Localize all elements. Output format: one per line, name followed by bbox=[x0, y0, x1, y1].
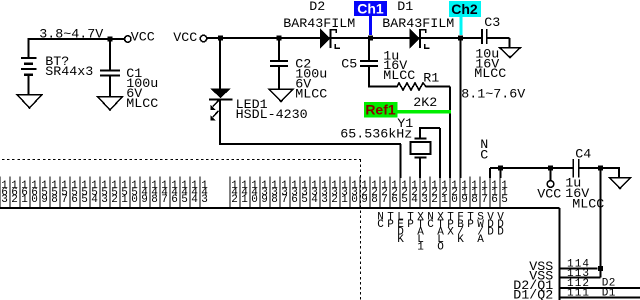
svg-text:D1: D1 bbox=[397, 0, 413, 15]
svg-text:1: 1 bbox=[441, 194, 448, 206]
svg-text:C5: C5 bbox=[341, 58, 357, 73]
svg-text:P: P bbox=[387, 219, 394, 231]
svg-text:VCC: VCC bbox=[131, 31, 155, 46]
svg-text:2: 2 bbox=[111, 194, 118, 206]
svg-text:C: C bbox=[480, 149, 488, 164]
svg-text:Ch1: Ch1 bbox=[357, 1, 384, 17]
svg-text:8: 8 bbox=[371, 194, 378, 206]
svg-text:4: 4 bbox=[311, 194, 318, 206]
svg-text:5: 5 bbox=[401, 194, 408, 206]
svg-text:6: 6 bbox=[71, 194, 78, 206]
svg-text:SR44x3: SR44x3 bbox=[45, 65, 93, 80]
svg-text:0: 0 bbox=[451, 194, 458, 206]
svg-text:8: 8 bbox=[271, 194, 278, 206]
svg-text:7: 7 bbox=[61, 194, 68, 206]
svg-text:1: 1 bbox=[341, 194, 348, 206]
svg-text:BAR43FILM: BAR43FILM bbox=[382, 17, 454, 32]
svg-text:3: 3 bbox=[321, 194, 328, 206]
svg-text:D1/Q2: D1/Q2 bbox=[513, 289, 553, 300]
svg-text:6: 6 bbox=[171, 194, 178, 206]
svg-text:A: A bbox=[477, 234, 484, 246]
svg-text:0: 0 bbox=[131, 194, 138, 206]
svg-text:2: 2 bbox=[11, 194, 18, 206]
svg-text:R1: R1 bbox=[423, 72, 439, 87]
svg-text:2: 2 bbox=[331, 194, 338, 206]
svg-text:5: 5 bbox=[81, 194, 88, 206]
svg-text:MLCC: MLCC bbox=[383, 69, 415, 84]
svg-text:2: 2 bbox=[431, 194, 438, 206]
svg-text:2: 2 bbox=[231, 194, 238, 206]
svg-text:3.8~4.7V: 3.8~4.7V bbox=[39, 28, 103, 43]
svg-text:5: 5 bbox=[301, 194, 308, 206]
svg-text:O: O bbox=[437, 242, 444, 254]
svg-text:6: 6 bbox=[491, 194, 498, 206]
svg-text:4: 4 bbox=[91, 194, 98, 206]
svg-text:4: 4 bbox=[411, 194, 418, 206]
svg-text:K: K bbox=[397, 234, 404, 246]
svg-text:9: 9 bbox=[261, 194, 268, 206]
svg-text:3: 3 bbox=[421, 194, 428, 206]
svg-text:6: 6 bbox=[391, 194, 398, 206]
svg-text:C3: C3 bbox=[484, 16, 500, 31]
svg-text:3: 3 bbox=[201, 194, 208, 206]
svg-text:5: 5 bbox=[181, 194, 188, 206]
svg-text:8: 8 bbox=[471, 194, 478, 206]
svg-text:C4: C4 bbox=[575, 148, 591, 163]
svg-text:VCC: VCC bbox=[173, 31, 197, 46]
svg-text:9: 9 bbox=[361, 194, 368, 206]
svg-text:D2: D2 bbox=[309, 0, 325, 15]
svg-text:5: 5 bbox=[501, 194, 508, 206]
svg-text:1: 1 bbox=[417, 242, 424, 254]
svg-text:4: 4 bbox=[191, 194, 198, 206]
svg-text:C: C bbox=[427, 219, 434, 231]
svg-text:3: 3 bbox=[1, 194, 8, 206]
svg-text:0: 0 bbox=[251, 194, 258, 206]
svg-text:111: 111 bbox=[567, 288, 589, 300]
svg-text:D: D bbox=[497, 227, 504, 239]
svg-text:P: P bbox=[467, 219, 474, 231]
svg-text:8: 8 bbox=[51, 194, 58, 206]
svg-text:7: 7 bbox=[481, 194, 488, 206]
svg-text:8.1~7.6V: 8.1~7.6V bbox=[461, 88, 525, 103]
svg-text:0: 0 bbox=[31, 194, 38, 206]
svg-text:Ch2: Ch2 bbox=[451, 1, 478, 17]
svg-text:0: 0 bbox=[351, 194, 358, 206]
svg-text:MLCC: MLCC bbox=[126, 97, 158, 112]
svg-text:1: 1 bbox=[21, 194, 28, 206]
svg-text:BAR43FILM: BAR43FILM bbox=[283, 17, 355, 32]
svg-text:MLCC: MLCC bbox=[474, 67, 506, 82]
svg-text:K: K bbox=[457, 234, 464, 246]
svg-text:VCC: VCC bbox=[537, 188, 561, 203]
svg-text:65.536kHz: 65.536kHz bbox=[340, 128, 412, 143]
svg-text:2K2: 2K2 bbox=[413, 96, 437, 111]
svg-text:9: 9 bbox=[141, 194, 148, 206]
svg-text:9: 9 bbox=[461, 194, 468, 206]
svg-text:MLCC: MLCC bbox=[295, 88, 327, 103]
svg-text:C: C bbox=[377, 219, 384, 231]
svg-text:Ref1: Ref1 bbox=[365, 102, 396, 118]
svg-text:3: 3 bbox=[101, 194, 108, 206]
svg-text:1: 1 bbox=[241, 194, 248, 206]
svg-text:P: P bbox=[407, 219, 414, 231]
svg-text:X: X bbox=[447, 227, 454, 239]
svg-text:HSDL-4230: HSDL-4230 bbox=[236, 108, 308, 123]
svg-text:7: 7 bbox=[281, 194, 288, 206]
svg-text:9: 9 bbox=[41, 194, 48, 206]
svg-text:7: 7 bbox=[161, 194, 168, 206]
svg-text:6: 6 bbox=[291, 194, 298, 206]
svg-text:D1: D1 bbox=[602, 288, 616, 300]
svg-text:D: D bbox=[487, 227, 494, 239]
svg-text:7: 7 bbox=[381, 194, 388, 206]
svg-text:8: 8 bbox=[151, 194, 158, 206]
svg-text:1: 1 bbox=[121, 194, 128, 206]
